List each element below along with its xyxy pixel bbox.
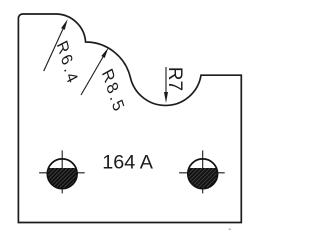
svg-text:R6.4: R6.4 [53,38,81,89]
left hole crosshair horizontal [39,172,85,174]
right hole crosshair horizontal [179,172,225,174]
left hole section fill [47,168,77,189]
svg-text:R7: R7 [164,67,185,91]
svg-text:R8.5: R8.5 [98,65,128,116]
arrowhead R7 [164,92,168,103]
right hole crosshair vertical [202,150,204,193]
svg-text:164 A: 164 A [102,151,153,173]
leader R6.4 [44,26,65,72]
leader R7 [165,67,167,95]
arrowhead R8.5 [101,48,108,59]
plate outline [18,14,241,223]
right hole circle [188,159,218,189]
arrowhead R6.4 [61,19,68,30]
right hole section fill [188,168,218,189]
left hole circle [47,159,77,189]
stray mark [229,229,231,231]
leader R8.5 [81,53,105,95]
left hole crosshair vertical [61,150,63,193]
